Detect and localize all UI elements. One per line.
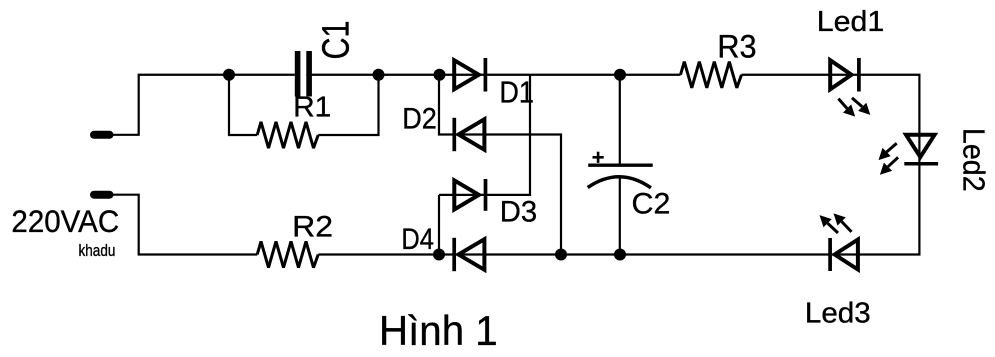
wire C2 bottom lead [619,176,621,255]
svg-text:D2: D2 [402,103,437,136]
svg-text:Led2: Led2 [956,128,991,192]
wire R1 branch left drop [229,75,257,135]
svg-text:Led3: Led3 [805,298,871,330]
wire R1 branch right rise [318,75,378,135]
diode D1 [454,58,485,92]
LED Led1 [830,58,859,92]
Led3 light arrow b [834,213,852,232]
svg-text:R2: R2 [292,210,333,243]
svg-text:D3: D3 [500,195,537,228]
wire node AC1 down through D2 to DC- column [439,75,561,255]
wire T1 to top rail [109,75,295,135]
svg-text:R3: R3 [717,28,756,64]
LED Led2 [904,135,938,164]
junction node AC1 at D1 anode [434,69,446,81]
svg-text:D4: D4 [401,224,434,256]
capacitor C2 plus sign [593,152,604,163]
wire D3 cathode up to top rail [439,75,530,195]
diode D4 [454,238,484,271]
svg-text:220VAC: 220VAC [11,203,119,239]
resistor R1 [257,122,318,148]
Led2 light arrow b [880,157,898,175]
diode D3 [454,179,485,211]
svg-text:khadu: khadu [79,241,116,260]
svg-text:C2: C2 [632,188,671,221]
Led1 light arrow b [852,98,870,115]
Led1 light arrow a [838,99,855,117]
wire top rail C1 to R3 [306,74,680,76]
wire T2 down to bottom rail to R2 [109,195,257,255]
LED Led3 [830,238,858,271]
junction node DC+ at C2 top [614,69,626,81]
capacitor C1 right plate [306,51,312,97]
wire C2 top lead [619,75,621,165]
wire R3 to Led1 to right column down and bottom rail back to R2 [318,75,919,255]
capacitor C1 left plate [295,51,301,97]
junction node C2 bottom [614,249,626,261]
Led2 light arrow a [879,143,897,160]
svg-text:Hình 1: Hình 1 [379,307,498,354]
Led3 light arrow a [820,215,839,233]
junction node DC- at D2 anode column [555,249,567,261]
junction node AC2 at D4 cathode [433,249,445,261]
svg-text:R1: R1 [293,92,331,124]
junction node top-right of R1/C1 [373,69,385,81]
terminal T2 (AC input bottom lead) [94,191,110,199]
svg-text:C1: C1 [314,21,357,60]
capacitor C2 top plate [588,163,653,166]
terminal T1 (AC input top lead) [94,131,110,139]
junction node top-left of R1/C1 [223,69,235,81]
diode D2 [454,118,484,151]
resistor R3 [681,62,742,88]
resistor R2 [257,241,318,267]
wire node AC2 vertical D3 to bottom rail [438,195,440,255]
capacitor C2 curved plate [588,177,651,188]
svg-text:D1: D1 [499,76,534,109]
svg-text:Led1: Led1 [817,6,884,38]
